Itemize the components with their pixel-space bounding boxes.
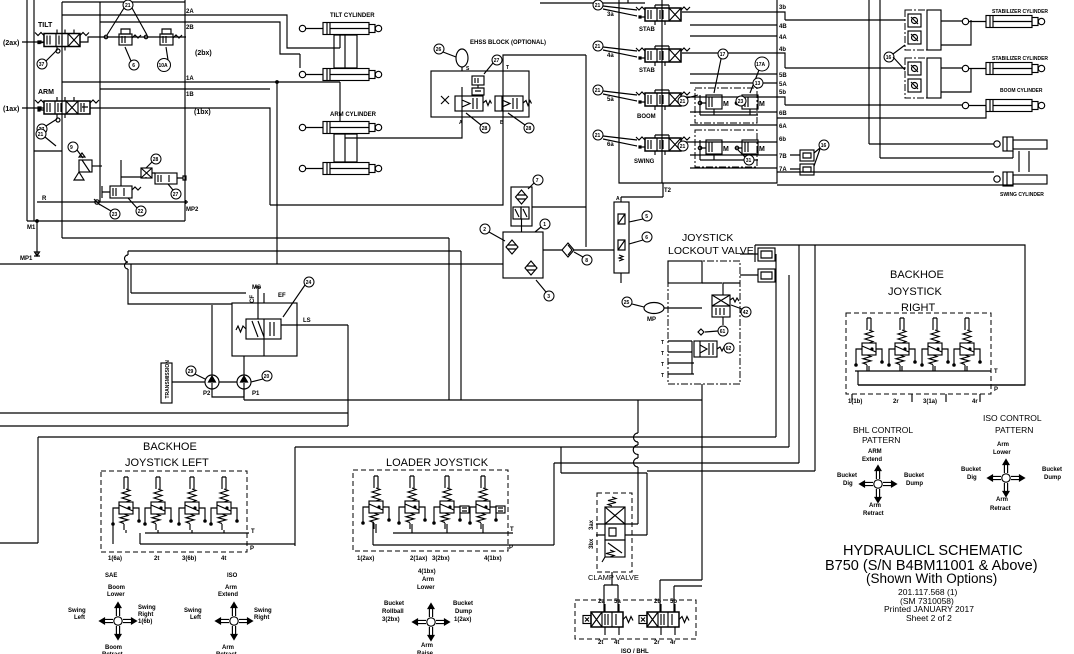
valve iso2 (639, 612, 689, 627)
balloon 27 (171, 189, 181, 199)
svg-text:(1bx): (1bx) (194, 109, 211, 116)
svg-text:6B: 6B (779, 111, 787, 117)
svg-text:Boom: Boom (108, 585, 125, 591)
svg-text:1B: 1B (186, 92, 194, 98)
svg-text:3(6b): 3(6b) (182, 556, 196, 562)
wire braid line 1 (38, 254, 776, 437)
component manifold (503, 232, 543, 278)
svg-text:2a: 2a (598, 599, 605, 605)
svg-text:EF: EF (278, 293, 286, 299)
svg-text:23: 23 (112, 212, 118, 218)
svg-text:20: 20 (264, 374, 270, 380)
wire braid line 2 (295, 275, 789, 447)
svg-text:4t: 4t (221, 556, 226, 562)
svg-text:Sheet 2 of 2: Sheet 2 of 2 (906, 613, 952, 623)
svg-text:M: M (723, 146, 729, 153)
balloon 31 tilt (37, 59, 47, 69)
svg-text:BACKHOE: BACKHOE (143, 441, 197, 453)
svg-text:ISO: ISO (227, 573, 238, 579)
svg-text:MS: MS (252, 285, 261, 291)
valve EHSS B (495, 96, 523, 111)
svg-text:Retract: Retract (990, 506, 1011, 512)
svg-text:T: T (510, 527, 514, 533)
svg-text:9: 9 (70, 145, 73, 151)
balloon 21 row4 (678, 141, 688, 151)
joystick units right (855, 318, 883, 371)
svg-text:Extend: Extend (218, 592, 238, 598)
wire 2A line (62, 15, 340, 48)
svg-text:Bucket: Bucket (837, 473, 857, 479)
svg-text:(2ax): (2ax) (3, 40, 19, 47)
svg-text:LOADER JOYSTICK: LOADER JOYSTICK (386, 457, 489, 469)
wire clamp feed left (637, 400, 639, 524)
svg-text:29: 29 (188, 369, 194, 375)
wire EHSS A down then left (345, 117, 462, 138)
svg-text:ARM: ARM (38, 89, 54, 96)
valve EHSS A (455, 96, 483, 111)
svg-text:1(6a): 1(6a) (108, 556, 122, 562)
svg-text:T: T (506, 65, 509, 71)
pump P2 (205, 375, 219, 389)
wire lockout outputs (740, 254, 758, 275)
wire arm rod frame (334, 134, 357, 162)
svg-text:4r: 4r (972, 399, 978, 405)
svg-text:6: 6 (645, 235, 648, 241)
svg-text:M1: M1 (27, 225, 36, 231)
wire cluster links (121, 160, 155, 186)
balloon 28 A (480, 123, 490, 133)
wire inner verticals (62, 0, 185, 238)
component port blocks 7B/7A (800, 150, 814, 161)
svg-text:2: 2 (483, 227, 486, 233)
svg-text:Bucket: Bucket (904, 473, 924, 479)
balloon 28 (151, 154, 161, 164)
node loader cross (413, 604, 450, 641)
component relief 9 (68, 142, 78, 152)
svg-text:1(1b): 1(1b) (848, 399, 862, 405)
svg-text:Arm: Arm (421, 643, 433, 649)
svg-text:P2: P2 (203, 391, 211, 397)
component check X box (141, 168, 152, 178)
wire tilt ports (57, 30, 74, 51)
svg-text:6: 6 (132, 63, 135, 69)
component clamp dashed box (597, 493, 632, 572)
svg-text:(Shown With Options): (Shown With Options) (866, 571, 997, 586)
svg-text:5b: 5b (670, 599, 677, 605)
svg-text:24: 24 (306, 280, 312, 286)
cylinder arm top (299, 122, 381, 134)
svg-text:27: 27 (494, 58, 500, 64)
balloon 20 (262, 371, 272, 381)
valve row3 5a (636, 92, 690, 106)
svg-text:23: 23 (738, 99, 744, 105)
svg-text:RIGHT: RIGHT (901, 302, 936, 314)
svg-text:Arm: Arm (997, 442, 1009, 448)
svg-text:61: 61 (720, 329, 726, 335)
balloon 22 (136, 206, 146, 216)
balloon 13 (753, 78, 763, 88)
wire joystick port stubs (852, 394, 980, 402)
balloon 16b (884, 52, 894, 62)
svg-text:LS: LS (303, 318, 311, 324)
svg-text:5a: 5a (614, 599, 621, 605)
svg-text:5A: 5A (779, 82, 787, 88)
svg-text:BOOM CYLINDER: BOOM CYLINDER (1000, 88, 1043, 94)
svg-text:MP2: MP2 (186, 207, 199, 213)
svg-text:Right: Right (138, 612, 153, 618)
svg-text:Lower: Lower (993, 450, 1011, 456)
svg-text:T: T (251, 529, 255, 535)
valve lockout small (694, 341, 717, 357)
wire compens line (80, 37, 186, 42)
wire unit drops (373, 522, 483, 545)
wire braid line 3 (554, 245, 799, 463)
valve priority (246, 319, 281, 339)
svg-text:BOOM: BOOM (637, 114, 656, 120)
svg-text:M: M (759, 101, 765, 108)
svg-text:4r: 4r (670, 640, 676, 646)
wire feed down x128 with breaks (125, 251, 232, 304)
svg-text:JOYSTICK: JOYSTICK (682, 232, 733, 244)
wire right port lines (682, 12, 777, 168)
svg-text:13: 13 (755, 81, 761, 87)
svg-text:6a: 6a (607, 142, 614, 148)
component iso-bhl dashed box (575, 600, 696, 639)
svg-text:Bucket: Bucket (453, 601, 473, 607)
balloon 2 (480, 224, 490, 234)
svg-text:27: 27 (173, 192, 179, 198)
svg-text:PATTERN: PATTERN (862, 435, 900, 445)
wire trunk y264 (0, 263, 503, 265)
svg-text:Left: Left (190, 615, 201, 621)
svg-text:Dump: Dump (1044, 475, 1061, 481)
svg-text:6A: 6A (779, 124, 787, 130)
component compensator 1 (119, 29, 141, 45)
svg-text:P: P (250, 546, 254, 552)
svg-text:B: B (500, 120, 504, 126)
component dashed box (101, 471, 247, 552)
wire feed x131 (131, 264, 246, 293)
component dashed box (353, 470, 508, 551)
wire outer box bottom (27, 220, 185, 222)
svg-text:LOCKOUT VALVE: LOCKOUT VALVE (668, 245, 754, 257)
wire T rail (393, 532, 513, 534)
wire braid line 4 (647, 245, 815, 471)
valve row4 6a (636, 137, 690, 151)
svg-text:4(1bx): 4(1bx) (418, 569, 436, 575)
svg-text:Arm: Arm (996, 497, 1008, 503)
svg-text:Dig: Dig (843, 481, 853, 487)
svg-text:STABILIZER CYLINDER: STABILIZER CYLINDER (992, 9, 1048, 15)
component EHSS pilot solenoid (472, 76, 484, 85)
svg-text:17A: 17A (756, 62, 766, 68)
svg-text:1A: 1A (186, 76, 194, 82)
svg-text:Swing: Swing (138, 605, 156, 611)
svg-text:1(2ax): 1(2ax) (454, 617, 471, 623)
svg-text:STABILIZER CYLINDER: STABILIZER CYLINDER (992, 56, 1048, 62)
svg-text:2A: 2A (186, 9, 194, 15)
wire T rail (855, 370, 991, 372)
wire trunk bottom y413/426 (0, 325, 348, 426)
wire big left loop (0, 437, 38, 543)
balloon 21 row3 (678, 96, 688, 106)
svg-text:Bucket: Bucket (961, 467, 981, 473)
svg-text:Lower: Lower (417, 585, 435, 591)
svg-text:Extend: Extend (862, 457, 882, 463)
svg-text:7B: 7B (779, 154, 787, 160)
svg-text:Arm: Arm (222, 645, 234, 651)
wire arm feeds (339, 82, 341, 121)
svg-text:PATTERN: PATTERN (995, 425, 1033, 435)
svg-text:TILT: TILT (38, 22, 53, 29)
wire top hline (62, 1, 185, 3)
svg-text:Left: Left (74, 615, 85, 621)
svg-text:CF: CF (250, 295, 256, 303)
svg-text:28: 28 (526, 126, 532, 132)
balloon 3 (544, 291, 554, 301)
svg-text:16: 16 (821, 143, 827, 149)
svg-text:4A: 4A (779, 35, 787, 41)
svg-text:22: 22 (138, 209, 144, 215)
svg-text:A: A (616, 196, 620, 202)
svg-text:3b: 3b (779, 5, 786, 11)
svg-text:ARM CYLINDER: ARM CYLINDER (330, 112, 377, 118)
wire manifold links (543, 249, 614, 251)
balloon 24 (304, 277, 314, 287)
wire P1 riser (243, 356, 245, 375)
wire tilt rod frame (334, 35, 357, 68)
svg-text:Swing: Swing (184, 608, 202, 614)
wire stab1 (777, 12, 971, 45)
component TRANSMISSION (161, 363, 172, 403)
balloon 21 left (36, 129, 46, 139)
wire EHSS ports (462, 87, 503, 117)
svg-text:2t: 2t (154, 556, 159, 562)
svg-text:STAB: STAB (639, 27, 656, 33)
svg-text:P: P (994, 387, 998, 393)
svg-text:26: 26 (436, 47, 442, 53)
svg-text:5B: 5B (779, 73, 787, 79)
svg-text:37: 37 (39, 62, 45, 68)
svg-text:TILT CYLINDER: TILT CYLINDER (330, 13, 375, 19)
svg-text:Bucket: Bucket (1042, 467, 1062, 473)
wire LS line (281, 324, 348, 326)
component unload valve cluster (110, 186, 132, 198)
wire vert 277 (276, 82, 278, 264)
svg-text:SWING: SWING (634, 159, 655, 165)
svg-text:Arm: Arm (225, 585, 237, 591)
wire 1A line (62, 81, 340, 83)
component accumulator MP (644, 303, 664, 314)
wire 1B line (90, 89, 270, 205)
svg-text:21: 21 (595, 44, 601, 50)
balloon 21 top (123, 0, 133, 10)
component compensator 2 (160, 29, 182, 45)
svg-text:CLAMP VALVE: CLAMP VALVE (588, 573, 639, 582)
component check valve 8 (562, 243, 574, 257)
balloon 17A (755, 57, 769, 71)
svg-text:Retract: Retract (863, 511, 884, 517)
svg-text:EHSS BLOCK (OPTIONAL): EHSS BLOCK (OPTIONAL) (470, 40, 546, 46)
wire P rail (140, 543, 295, 545)
svg-text:Rollball: Rollball (382, 609, 404, 615)
svg-text:8: 8 (585, 258, 588, 264)
valve TILT (35, 33, 89, 47)
wire 1B to EHSS B (270, 117, 503, 205)
node pilot circles (104, 35, 108, 39)
wire P rail (858, 384, 1025, 386)
balloon 29 (186, 366, 196, 376)
wire trunk y250 (128, 251, 461, 400)
cylinder tilt top (299, 23, 381, 35)
svg-text:Lower: Lower (107, 592, 125, 598)
component bank box (619, 0, 777, 183)
wire left border verticals (27, 0, 34, 221)
svg-text:Bucket: Bucket (384, 601, 404, 607)
svg-text:T: T (661, 362, 664, 368)
balloon 23 (110, 209, 120, 219)
svg-text:21: 21 (125, 3, 131, 9)
wire swing (777, 144, 1013, 185)
wire tilt feeds (300, 35, 340, 68)
valve row1 3a (636, 7, 690, 21)
component filter block (511, 187, 532, 226)
balloon 31 (744, 155, 754, 165)
wire trunk y237 (62, 238, 449, 400)
wire enclosure (755, 245, 1025, 385)
svg-text:10A: 10A (159, 63, 169, 69)
joystick units left (112, 477, 140, 530)
svg-text:M: M (723, 101, 729, 108)
wire stab2 (777, 53, 971, 92)
balloon 31 arm (37, 124, 47, 134)
svg-text:5: 5 (645, 214, 648, 220)
svg-text:(2bx): (2bx) (195, 50, 212, 57)
svg-text:Dump: Dump (906, 481, 923, 487)
svg-text:STAB: STAB (639, 68, 656, 74)
svg-text:MP: MP (647, 317, 656, 323)
svg-text:25: 25 (624, 300, 630, 306)
wire sub-box line (34, 150, 62, 152)
wire unit links (858, 366, 967, 385)
svg-text:2t: 2t (598, 640, 603, 646)
svg-text:Right: Right (254, 615, 269, 621)
component boom solenoids (695, 88, 757, 123)
svg-text:6b: 6b (779, 137, 786, 143)
svg-text:2(1ax): 2(1ax) (410, 556, 427, 562)
svg-text:ISO / BHL: ISO / BHL (621, 649, 649, 654)
svg-text:JOYSTICK: JOYSTICK (888, 286, 942, 298)
svg-text:31: 31 (746, 158, 752, 164)
balloon 28 B (524, 123, 534, 133)
svg-text:TRANSMISSION: TRANSMISSION (165, 360, 171, 399)
svg-text:42: 42 (743, 310, 749, 316)
svg-text:Arm: Arm (422, 577, 434, 583)
pump P1 (237, 375, 251, 389)
component relief block (614, 202, 629, 273)
svg-text:21: 21 (680, 99, 686, 105)
svg-text:2r: 2r (893, 399, 899, 405)
joystick units loader (362, 476, 390, 529)
svg-text:28: 28 (153, 157, 159, 163)
svg-text:3(2bx): 3(2bx) (382, 617, 400, 623)
balloon 6 (129, 60, 139, 70)
balloon 1 (540, 219, 550, 229)
svg-text:Swing: Swing (68, 608, 86, 614)
wire T column (668, 341, 694, 374)
svg-text:16: 16 (886, 55, 892, 61)
component accumulator (456, 49, 468, 67)
svg-text:62: 62 (726, 346, 732, 352)
svg-text:3a: 3a (607, 12, 614, 18)
component lock block 1 (905, 10, 927, 50)
svg-text:T: T (994, 369, 998, 375)
wire pump shaft (172, 382, 244, 397)
svg-text:Dump: Dump (455, 609, 472, 615)
svg-text:P1: P1 (252, 391, 260, 397)
svg-text:1: 1 (543, 222, 546, 228)
wire EHSS T line (503, 55, 586, 247)
balloon 17 (718, 49, 728, 59)
svg-text:4b: 4b (779, 47, 786, 53)
valve ARM (35, 100, 99, 114)
svg-text:HYDRAULICL SCHEMATIC: HYDRAULICL SCHEMATIC (843, 543, 1023, 559)
component dashed box (846, 313, 991, 394)
svg-text:M: M (759, 146, 765, 153)
component outlet blocks (758, 248, 775, 261)
svg-text:Arm: Arm (869, 503, 881, 509)
svg-text:1(6b): 1(6b) (138, 619, 152, 625)
svg-text:MP1: MP1 (20, 256, 33, 262)
wire unit drops (113, 524, 224, 544)
svg-text:4B: 4B (779, 24, 787, 30)
wire right feeders (869, 0, 880, 158)
svg-text:SWING CYLINDER: SWING CYLINDER (1000, 192, 1044, 198)
node check dot (698, 329, 704, 335)
svg-text:Swing: Swing (254, 608, 272, 614)
svg-text:3: 3 (547, 294, 550, 300)
wire 2B line (100, 22, 300, 54)
svg-text:3ax: 3ax (589, 519, 595, 530)
svg-text:Boom: Boom (105, 645, 122, 651)
svg-text:4t: 4t (614, 640, 619, 646)
svg-text:21: 21 (595, 133, 601, 139)
cylinder arm bottom (299, 163, 381, 175)
component swing solenoids (695, 130, 757, 167)
wire pins (605, 604, 675, 635)
wire left P riser (295, 447, 647, 546)
wire 1ax lead (22, 107, 44, 109)
cylinder swing assembly (994, 141, 1000, 147)
component EHSS box (431, 71, 529, 117)
svg-text:(1ax): (1ax) (3, 106, 19, 113)
svg-text:5a: 5a (607, 97, 614, 103)
wire boom (777, 97, 986, 118)
wire P rail (373, 544, 554, 546)
component priority valve box (232, 303, 297, 356)
wire break loops (633, 433, 638, 467)
svg-text:ISO CONTROL: ISO CONTROL (983, 413, 1042, 423)
svg-text:BHL CONTROL: BHL CONTROL (853, 425, 913, 435)
svg-text:21: 21 (38, 132, 44, 138)
svg-text:28: 28 (482, 126, 488, 132)
svg-text:SAE: SAE (105, 573, 117, 579)
svg-text:17: 17 (720, 52, 726, 58)
wire iso-bhl feeds (660, 400, 702, 612)
svg-text:Dig: Dig (967, 475, 977, 481)
component lockout dashed box (668, 261, 740, 384)
svg-text:JOYSTICK LEFT: JOYSTICK LEFT (125, 457, 209, 469)
